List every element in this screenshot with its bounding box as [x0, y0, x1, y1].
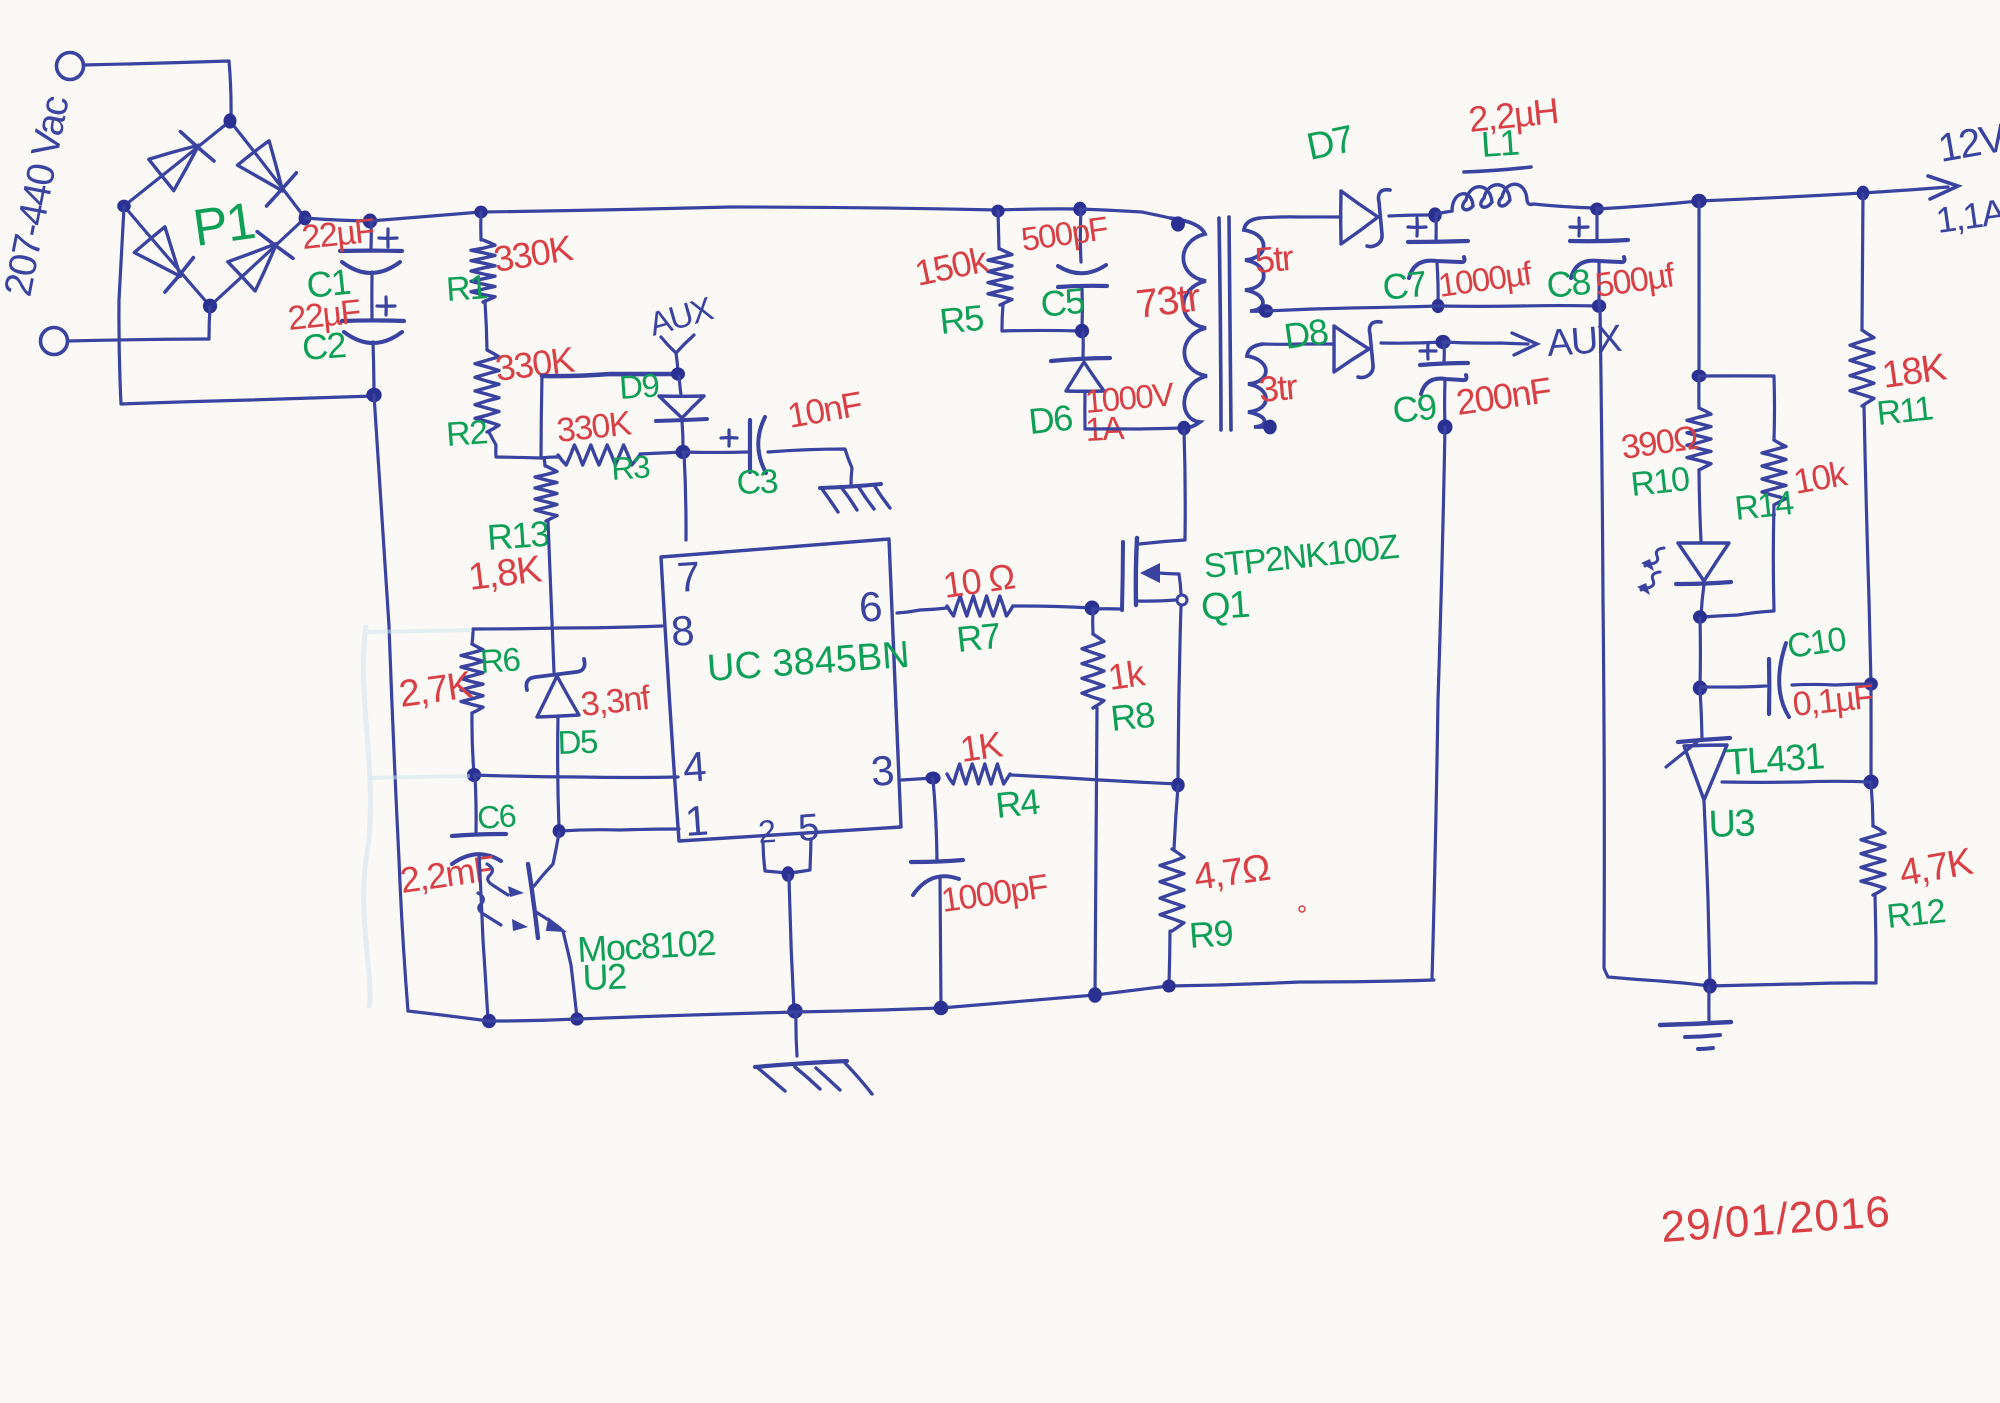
pin 1 label: [683, 797, 708, 845]
light arrows U2: [478, 864, 528, 931]
svg-text:330K: 330K: [555, 404, 634, 450]
label L1 value 2,2µH: [1467, 90, 1560, 140]
bridge diode top-right: [238, 141, 297, 206]
diode D8: [1334, 322, 1443, 378]
AUX feed arrow: [661, 335, 694, 372]
svg-text:1,1A: 1,1A: [1933, 191, 2000, 241]
node R10 top junction: [1692, 370, 1707, 383]
svg-text:R10: R10: [1629, 460, 1691, 504]
transformer secondary 3tr: [1247, 344, 1268, 427]
svg-text:C9: C9: [1391, 386, 1439, 431]
wire R13 top: [544, 458, 545, 466]
label R11: [1875, 389, 1935, 433]
label R2: [445, 413, 489, 454]
label U2: [582, 956, 627, 998]
pin 8 label: [669, 607, 694, 655]
pin 7 label: [675, 553, 700, 601]
label C1 value 22µF: [300, 212, 376, 257]
wire C4 riser: [933, 779, 937, 861]
wire right rail to R12: [1871, 783, 1873, 826]
input terminal J1 (top): [57, 53, 84, 80]
wire 3tr to D8: [1263, 342, 1334, 345]
transistor Q1 STP2NK100Z: [1122, 538, 1187, 784]
label D7: [1303, 118, 1357, 169]
zener diode D5: [526, 659, 584, 828]
svg-text:D6: D6: [1027, 397, 1075, 442]
wire ground stub (sec): [1707, 987, 1710, 1020]
diode D9: [656, 376, 707, 451]
svg-text:C6: C6: [476, 797, 517, 836]
bridge diode top-left: [149, 132, 214, 191]
svg-text:P1: P1: [190, 192, 258, 258]
label C7 value 1000µf: [1436, 254, 1535, 304]
svg-text:3tr: 3tr: [1257, 366, 1299, 410]
svg-text:R7: R7: [955, 615, 1003, 660]
node C2 bottom junction: [366, 388, 381, 402]
svg-text:3,3nf: 3,3nf: [579, 679, 653, 724]
node C6 bottom: [482, 1014, 496, 1029]
label R4: [994, 781, 1042, 826]
label C9: [1391, 386, 1439, 431]
wire R8 down: [1095, 708, 1097, 995]
svg-text:3: 3: [869, 747, 894, 795]
shunt regulator U3 TL431: [1666, 738, 1871, 984]
wire R7 to gate: [1013, 606, 1092, 608]
wire C10 node to TL431: [1700, 689, 1702, 738]
node R9 bottom: [1162, 980, 1175, 993]
node D9 cathode junction: [676, 445, 691, 459]
svg-text:R4: R4: [994, 781, 1042, 826]
label R10: [1629, 460, 1691, 504]
svg-text:R6: R6: [479, 640, 521, 680]
svg-text:73tr: 73tr: [1134, 275, 1203, 326]
resistor R5: [988, 211, 1012, 305]
diode D6: [1051, 332, 1110, 428]
pin 5 label: [797, 807, 820, 850]
svg-text:C5: C5: [1039, 280, 1087, 325]
node R10 branch top: [1691, 194, 1706, 208]
label STP2NK100Z: [1202, 528, 1400, 586]
wire C6 riser: [475, 776, 476, 833]
transformer core: [1219, 217, 1231, 430]
wire aux return rail: [1432, 427, 1445, 980]
wire R14 return: [1702, 505, 1774, 617]
capacitor 1000pF: [911, 860, 963, 1007]
wire riser R2R3 to D9 node: [541, 374, 677, 458]
node D9 anode junction: [671, 367, 685, 380]
ground (secondary): [1660, 1022, 1731, 1049]
label P1: [190, 192, 258, 258]
label R4 value 1K: [957, 723, 1005, 770]
node C8 top junction: [1590, 203, 1604, 216]
svg-text:R1: R1: [445, 268, 489, 309]
capacitor C3: [721, 417, 766, 473]
node C1 top junction: [363, 214, 377, 229]
wire bridge bottom stub: [209, 307, 210, 339]
label R6 value 2,7K: [396, 664, 474, 716]
label R3 value 330K: [555, 404, 634, 450]
wire drain: [1140, 430, 1185, 544]
capacitor C5: [1058, 209, 1107, 330]
svg-text:R12: R12: [1885, 892, 1947, 936]
svg-text:7: 7: [675, 553, 700, 601]
wire output bus: [1597, 187, 1948, 209]
pin 2 label: [757, 813, 776, 850]
label D5: [557, 723, 598, 761]
label R5 value 150k: [911, 238, 992, 294]
capacitor C1: [340, 229, 402, 273]
svg-text:R9: R9: [1188, 912, 1234, 956]
svg-text:5tr: 5tr: [1253, 237, 1295, 281]
op-amp U1 UC3845BN box: [661, 539, 901, 841]
wire R5 bottom: [1002, 305, 1080, 331]
label C2: [301, 324, 347, 368]
ground (C3): [820, 484, 890, 512]
wire bridge left to C2 bottom: [119, 207, 374, 404]
node 1000pF bottom: [934, 1001, 949, 1016]
resistor R3: [558, 445, 640, 465]
wire C2 bottom stub: [373, 342, 374, 395]
resistor R4: [947, 764, 1010, 784]
label 5tr: [1253, 237, 1295, 281]
pin 3 label: [869, 747, 894, 795]
input terminal J2 (bottom): [41, 328, 68, 355]
wire 5tr to D7: [1260, 217, 1341, 218]
label D6 value 1000V: [1083, 375, 1175, 420]
label C7: [1381, 263, 1429, 308]
label C9 value 200nF: [1453, 369, 1553, 423]
diode D7: [1341, 190, 1434, 247]
label 207-440 Vac: [0, 92, 78, 299]
wire C6 bottom: [479, 854, 488, 1020]
svg-text:8: 8: [669, 607, 694, 655]
capacitor C6: [452, 834, 506, 864]
label C5 value 500pF: [1019, 209, 1110, 258]
wire 5tr return: [1266, 306, 1438, 311]
label Q1: [1200, 584, 1251, 629]
label UC3845BN: [706, 634, 911, 690]
label R9 value 4,7Ω: [1191, 847, 1271, 899]
wire J2 to bridge bottom: [68, 339, 209, 341]
svg-text:R5: R5: [938, 297, 986, 342]
wire R9 down: [1169, 931, 1170, 985]
label R14: [1733, 484, 1795, 528]
AUX out arrowhead: [1512, 333, 1537, 355]
svg-text:C2: C2: [301, 324, 347, 368]
LED light arrows: [1637, 548, 1664, 595]
svg-text:2: 2: [757, 813, 776, 850]
label 1,1A: [1933, 191, 2000, 241]
label R7 value 10Ω: [940, 555, 1017, 606]
label R12: [1885, 892, 1947, 936]
wire bridge right to bus: [305, 218, 370, 221]
svg-text:R8: R8: [1109, 694, 1157, 739]
label R13: [486, 513, 551, 558]
node bridge bottom: [203, 299, 217, 314]
node gate junction: [1085, 601, 1100, 616]
label R12 value 4,7K: [1896, 841, 1976, 895]
phototransistor U2: [528, 833, 577, 1018]
label date 29/01/2016: [1659, 1187, 1892, 1252]
bridge diode bottom-right: [228, 232, 293, 291]
label R10 value 390Ω: [1619, 419, 1700, 467]
label C5: [1039, 280, 1087, 325]
svg-text:1: 1: [683, 797, 708, 845]
label D9: [618, 366, 660, 406]
node LED cathode junction: [1693, 610, 1707, 623]
capacitor C7: [1408, 216, 1468, 305]
wire L1 to output: [1533, 204, 1596, 208]
svg-text:TL431: TL431: [1725, 735, 1825, 783]
label AUX (right): [1546, 318, 1624, 365]
label D6 value 1A: [1084, 409, 1125, 448]
label C1: [305, 261, 353, 306]
label C8 value 500µf: [1593, 256, 1678, 305]
svg-text:22µF: 22µF: [300, 212, 376, 257]
svg-text:U3: U3: [1708, 802, 1755, 846]
wire pin4: [474, 775, 678, 778]
wire R3 to D9 bottom node: [640, 452, 683, 454]
node C9 top junction: [1435, 335, 1450, 349]
svg-text:R2: R2: [445, 413, 489, 454]
node C9 bottom: [1438, 419, 1453, 434]
node pin3 junction: [925, 772, 940, 785]
svg-text:C3: C3: [736, 463, 778, 502]
wire right rail mid: [1869, 685, 1872, 782]
label Moc8102: [576, 922, 716, 970]
node C5 top: [1073, 202, 1086, 216]
capacitor C8: [1570, 210, 1628, 305]
bridge diode bottom-left: [134, 227, 193, 292]
svg-text:U2: U2: [582, 956, 627, 998]
wire pin1: [559, 829, 679, 831]
label R2 value 330K: [493, 339, 577, 389]
label R1 value 330K: [491, 227, 576, 280]
capacitor C2: [342, 297, 404, 343]
label C8: [1545, 261, 1593, 306]
node C8 bottom: [1592, 299, 1606, 312]
label C2 value 22µF: [286, 293, 362, 338]
resistor R6: [461, 629, 483, 713]
label 73tr: [1134, 275, 1203, 326]
node R8 bottom: [1088, 987, 1102, 1002]
wire AUX out: [1443, 342, 1528, 344]
node source junction: [1171, 778, 1184, 793]
wire bus to primary: [1080, 209, 1170, 218]
resistor R7: [947, 596, 1013, 616]
wire left rail down: [374, 395, 408, 1011]
svg-text:18K: 18K: [1879, 346, 1948, 397]
wire R10-R14 link: [1699, 374, 1774, 377]
wire LED to C10 node: [1698, 618, 1702, 687]
resistor R10: [1687, 377, 1711, 470]
svg-text:AUX: AUX: [1546, 318, 1624, 365]
wire R13 to D5: [548, 521, 554, 672]
svg-text:1K: 1K: [957, 723, 1005, 770]
pin 4 label: [681, 742, 707, 790]
node C10 right junction: [1864, 677, 1878, 690]
node D7 cathode junction: [1428, 207, 1441, 222]
node pin4 junction: [467, 768, 481, 782]
label U3: [1708, 802, 1755, 846]
resistor R12: [1861, 826, 1885, 895]
resistor R14: [1762, 377, 1786, 505]
label TL431: [1725, 735, 1825, 783]
node ref junction: [1863, 775, 1878, 790]
svg-text:1,8K: 1,8K: [466, 548, 544, 599]
transformer primary 73tr: [1170, 218, 1207, 428]
label R8: [1109, 694, 1157, 739]
label R1: [445, 268, 489, 309]
svg-text:Q1: Q1: [1200, 584, 1251, 629]
resistor R2: [475, 350, 499, 432]
wire C3 node to pin7: [684, 453, 686, 540]
node C10 left junction: [1693, 681, 1707, 696]
capacitor C9: [1420, 343, 1468, 426]
wire secondary bottom rail: [1710, 983, 1876, 986]
node R11 top: [1857, 186, 1870, 201]
node primary top: [1171, 216, 1185, 231]
node opto emitter bottom: [570, 1012, 583, 1025]
label 12V: [1935, 116, 2000, 171]
wire top bus: [370, 207, 1080, 221]
LED U2 emitter diode: [1676, 543, 1731, 615]
resistor R9: [1160, 849, 1184, 931]
node R1 top: [474, 206, 487, 219]
label R7: [955, 615, 1003, 660]
label D8: [1281, 310, 1330, 357]
label R3: [610, 448, 651, 487]
label 3tr: [1257, 366, 1299, 410]
node pins2-5: [782, 866, 795, 881]
resistor R11: [1850, 194, 1874, 406]
inductor L1: [1435, 167, 1533, 214]
wire D9node to C3: [683, 450, 747, 454]
node R5 top: [991, 205, 1004, 218]
wire R10 to LED: [1699, 470, 1701, 541]
label C3: [736, 463, 778, 502]
svg-text:D9: D9: [618, 366, 660, 406]
wire pin8: [473, 626, 662, 629]
wire bottom rail: [408, 980, 1434, 1021]
transformer secondary 5tr: [1244, 218, 1264, 311]
node secondary ground: [1703, 978, 1717, 993]
wire C3 to ground: [768, 449, 852, 486]
svg-text:6: 6: [857, 583, 882, 631]
faint marks: [363, 625, 472, 1008]
node 5tr bottom: [1259, 304, 1273, 317]
label C6 value 2,2mF: [397, 847, 497, 901]
svg-text:R14: R14: [1733, 484, 1795, 528]
svg-text:R11: R11: [1875, 389, 1935, 433]
node bridge left: [117, 200, 131, 213]
label C10: [1785, 620, 1848, 666]
wire R1-R2 link: [485, 302, 487, 350]
label R9: [1188, 912, 1234, 956]
label AUX (top): [645, 289, 718, 342]
pin 6 label: [857, 583, 882, 631]
wire C7-C8 bottom: [1438, 304, 1599, 308]
node IC ground junction: [787, 1003, 802, 1018]
wire C1-C2 link: [370, 272, 373, 319]
wire R10 branch down: [1697, 202, 1700, 376]
wire D6 to primary bottom: [1085, 428, 1183, 429]
bridge rectifier P1 outline: [124, 121, 305, 306]
output arrowhead: [1928, 176, 1958, 199]
label R5: [938, 297, 986, 342]
node primary bottom: [1177, 421, 1190, 436]
wire pin3: [901, 778, 933, 780]
wire IC ground stub: [796, 1012, 797, 1056]
label 1000pF value: [939, 867, 1050, 920]
node bridge right: [299, 211, 312, 226]
svg-text:4: 4: [681, 742, 707, 790]
label R8 value 1k: [1105, 652, 1148, 698]
resistor R1: [471, 240, 495, 302]
label L1: [1480, 121, 1520, 165]
node C7 bottom: [1432, 299, 1445, 313]
label R6: [479, 640, 521, 680]
node pin1 junction: [553, 824, 566, 838]
wire C8 rail down: [1600, 307, 1710, 986]
red speck: [1299, 906, 1305, 912]
label C6: [476, 797, 517, 836]
wire R1 stub: [479, 212, 482, 240]
resistor R13: [535, 466, 557, 521]
wire R4 to source: [1010, 775, 1178, 784]
wire C1 stub: [369, 221, 372, 249]
label C10 value 0,1µF: [1791, 678, 1875, 724]
label D5 value 3,3nf: [579, 679, 653, 724]
svg-text:D5: D5: [557, 723, 598, 761]
capacitor C10: [1701, 643, 1871, 717]
svg-text:C10: C10: [1785, 620, 1848, 666]
wire R11 down: [1864, 406, 1871, 684]
wire R12 down: [1875, 895, 1876, 982]
node bridge top: [224, 113, 237, 128]
wire pin6: [897, 608, 947, 613]
wire pins 2-5 join: [763, 839, 811, 873]
label R14 value 10k: [1791, 454, 1851, 502]
node C5 bottom junction: [1075, 324, 1089, 338]
svg-text:C7: C7: [1381, 263, 1429, 308]
ground (IC): [755, 1061, 872, 1094]
wire J1 to bridge top: [84, 61, 231, 119]
wire source to R9: [1174, 786, 1178, 849]
svg-text:5: 5: [797, 807, 820, 850]
node 3tr bottom: [1263, 420, 1276, 435]
label R11 value 18K: [1879, 346, 1948, 397]
svg-text:C8: C8: [1545, 261, 1593, 306]
wire R6 bottom: [472, 713, 474, 774]
svg-text:D8: D8: [1281, 310, 1330, 357]
wire pins2-5 down: [789, 875, 794, 1010]
wire gate stub: [1092, 607, 1121, 610]
label R13 value 1,8K: [466, 548, 544, 599]
label C3 value 10nF: [785, 385, 865, 436]
resistor R8: [1082, 609, 1104, 708]
wire R2 bottom: [489, 432, 558, 458]
label D6: [1027, 397, 1075, 442]
